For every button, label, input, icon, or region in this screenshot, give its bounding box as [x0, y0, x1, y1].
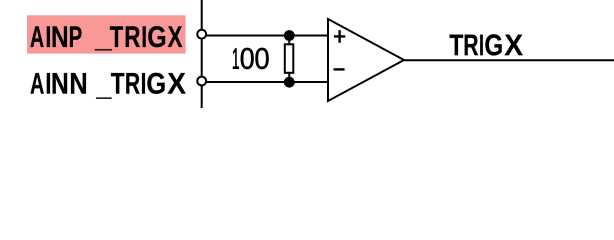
op-amp plus input mark [334, 30, 345, 43]
wire bottom net AINN [206, 81, 329, 83]
pin label AINP_TRIGX [30, 26, 182, 50]
wire resistor top lead [288, 36, 290, 46]
op-amp minus input mark [334, 68, 345, 70]
wire vertical bus [201, 0, 203, 108]
pin label AINN_TRIGX [31, 73, 186, 99]
node junction dot top [284, 30, 295, 41]
highlight AINP_TRIGX [27, 15, 186, 53]
wire top net AINP [206, 35, 329, 37]
terminal AINN_TRIGX (open circle) [197, 77, 206, 86]
terminal AINP_TRIGX (open circle) [197, 30, 206, 39]
op-amp U1 triangle [328, 19, 404, 101]
wire resistor bottom lead [288, 72, 290, 82]
node junction dot bottom [284, 77, 295, 88]
net label TRIGX [450, 34, 523, 55]
wire output TRIGX [403, 59, 614, 61]
resistor value 100 [233, 48, 269, 69]
resistor body [285, 44, 294, 73]
